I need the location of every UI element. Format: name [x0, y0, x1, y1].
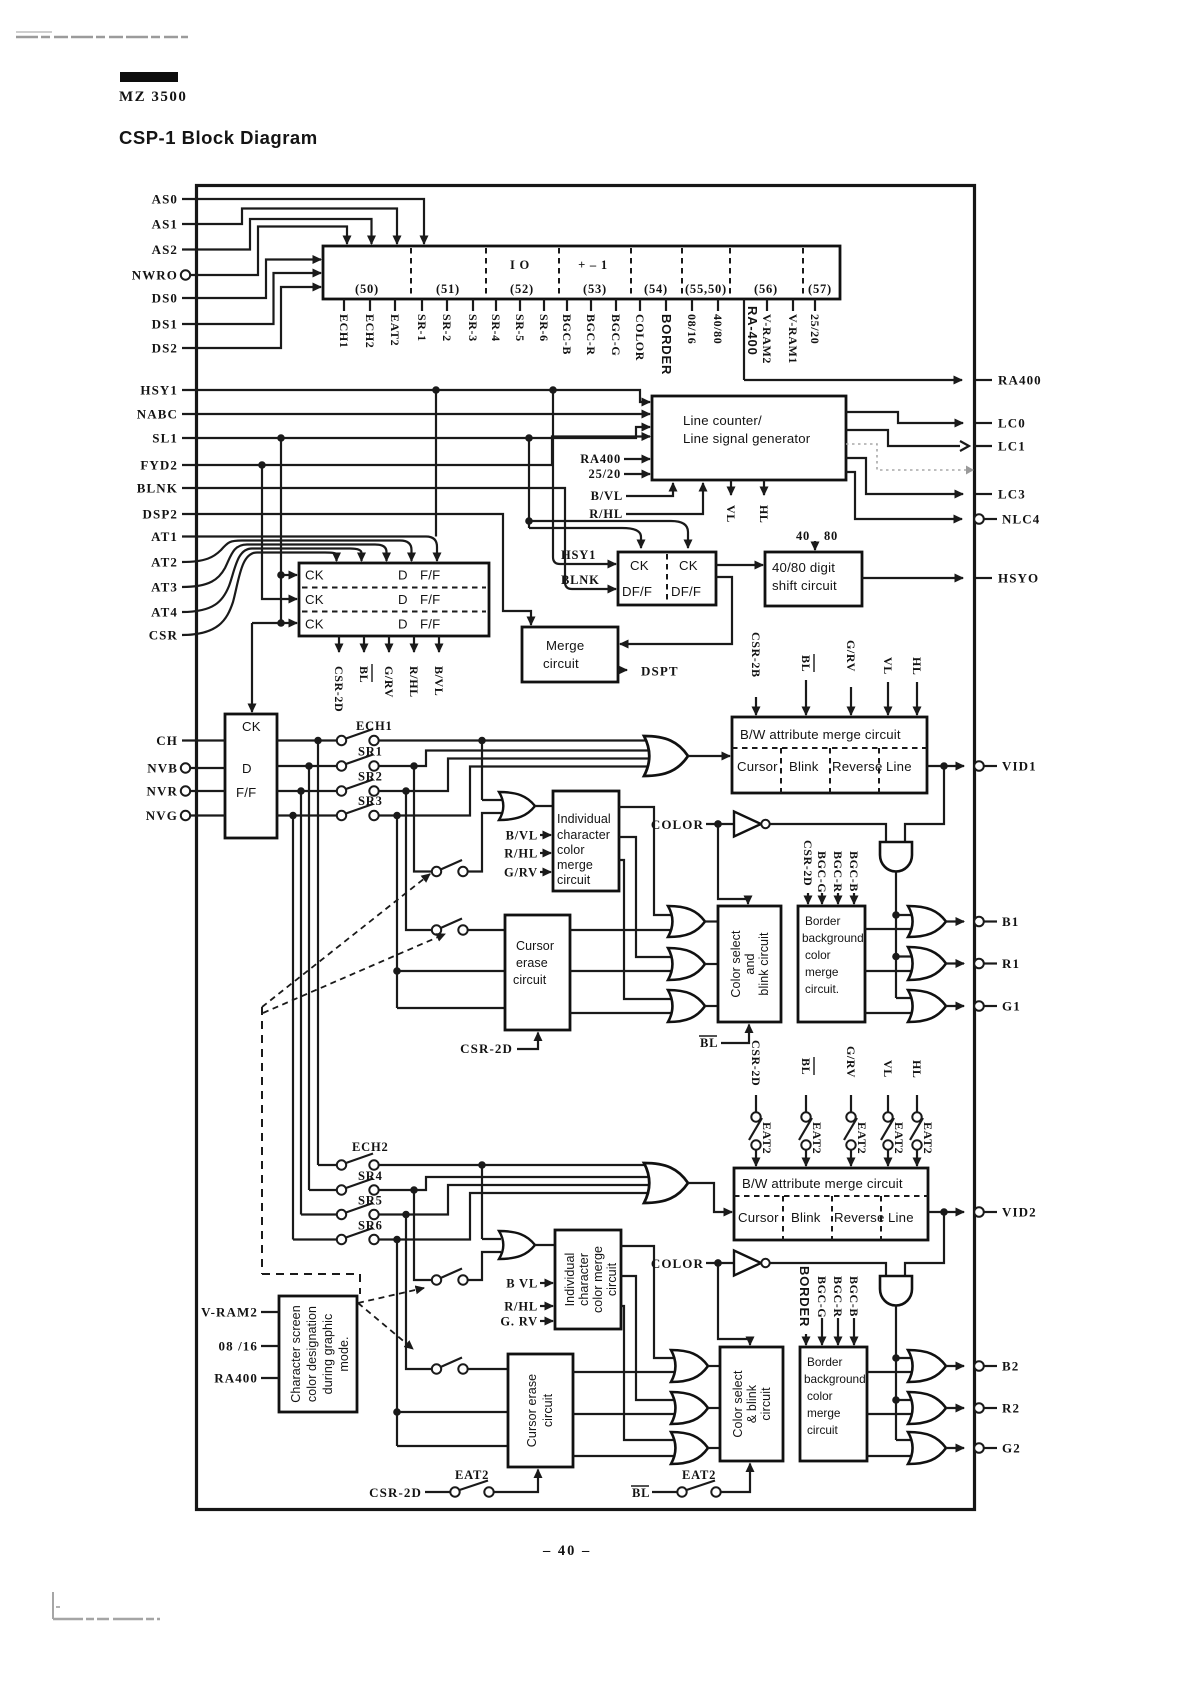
- svg-text:circuit: circuit: [513, 973, 547, 987]
- svg-text:AS1: AS1: [152, 217, 178, 232]
- svg-text:Merge: Merge: [546, 638, 584, 653]
- svg-text:G1: G1: [1002, 999, 1021, 1014]
- svg-text:SR-4: SR-4: [489, 314, 503, 342]
- svg-text:R2: R2: [1002, 1401, 1020, 1416]
- svg-text:BGC-B: BGC-B: [847, 1276, 861, 1317]
- svg-text:B/VL: B/VL: [591, 489, 623, 503]
- svg-text:R/HL: R/HL: [407, 666, 421, 698]
- svg-text:SL1: SL1: [152, 431, 178, 446]
- svg-text:ECH1: ECH1: [337, 314, 351, 348]
- svg-text:character: character: [557, 828, 610, 842]
- svg-text:BGC-G: BGC-G: [609, 314, 623, 356]
- svg-text:BL: BL: [632, 1486, 650, 1500]
- svg-text:COLOR: COLOR: [651, 817, 704, 832]
- svg-text:character: character: [577, 1253, 591, 1306]
- svg-text:B/VL: B/VL: [432, 666, 446, 696]
- svg-text:Cursor: Cursor: [738, 1210, 779, 1225]
- svg-text:CK: CK: [242, 719, 261, 734]
- svg-text:shift circuit: shift circuit: [772, 578, 837, 593]
- svg-text:CK: CK: [630, 558, 649, 573]
- svg-text:Line: Line: [888, 1210, 914, 1225]
- svg-text:HSY1: HSY1: [140, 383, 178, 398]
- svg-text:circuit.: circuit.: [805, 982, 839, 996]
- svg-text:BGC-R: BGC-R: [831, 851, 845, 893]
- svg-text:EAT2: EAT2: [921, 1122, 935, 1154]
- svg-text:circuit: circuit: [605, 1262, 619, 1296]
- svg-text:25/20: 25/20: [589, 467, 621, 481]
- svg-text:08 /16: 08 /16: [219, 1339, 258, 1354]
- svg-text:LC3: LC3: [998, 487, 1026, 502]
- svg-text:AS2: AS2: [152, 242, 178, 257]
- svg-text:40/80 digit: 40/80 digit: [772, 560, 835, 575]
- svg-text:Individual: Individual: [557, 812, 611, 826]
- svg-text:ECH1: ECH1: [356, 719, 393, 733]
- svg-text:SR-3: SR-3: [466, 314, 480, 342]
- svg-text:SR1: SR1: [358, 745, 383, 759]
- svg-text:COLOR: COLOR: [633, 314, 647, 361]
- svg-text:Line: Line: [886, 759, 912, 774]
- svg-text:D: D: [398, 592, 408, 607]
- svg-text:SR5: SR5: [358, 1194, 383, 1208]
- svg-text:merge: merge: [805, 965, 839, 979]
- svg-text:Reverse: Reverse: [832, 759, 883, 774]
- svg-text:SR2: SR2: [358, 770, 383, 784]
- svg-text:CK: CK: [679, 558, 698, 573]
- svg-text:G/RV: G/RV: [844, 1046, 858, 1078]
- svg-text:RA400: RA400: [214, 1371, 258, 1386]
- svg-text:NWRO: NWRO: [132, 268, 178, 283]
- svg-text:F/F: F/F: [236, 785, 256, 800]
- svg-text:Border: Border: [807, 1355, 842, 1369]
- svg-text:BLNK: BLNK: [137, 481, 178, 496]
- svg-text:CK: CK: [305, 592, 324, 607]
- svg-text:circuit: circuit: [543, 656, 579, 671]
- svg-text:FYD2: FYD2: [140, 458, 178, 473]
- svg-text:B2: B2: [1002, 1359, 1019, 1374]
- svg-text:VL: VL: [881, 1060, 895, 1078]
- svg-text:ECH2: ECH2: [363, 314, 377, 348]
- svg-text:AT3: AT3: [151, 580, 178, 595]
- svg-text:BL: BL: [799, 655, 813, 672]
- svg-text:40: 40: [796, 529, 810, 543]
- svg-text:color merge: color merge: [591, 1246, 605, 1313]
- svg-text:G2: G2: [1002, 1441, 1021, 1456]
- svg-text:HSYO: HSYO: [998, 571, 1039, 586]
- svg-text:during graphic: during graphic: [321, 1314, 335, 1395]
- svg-text:color: color: [805, 948, 831, 962]
- svg-text:(52): (52): [510, 282, 534, 296]
- svg-text:B VL: B VL: [506, 1277, 538, 1291]
- svg-text:CH: CH: [156, 733, 178, 748]
- svg-text:(51): (51): [436, 282, 460, 296]
- svg-text:circuit: circuit: [541, 1393, 555, 1427]
- svg-text:merge: merge: [557, 858, 593, 872]
- svg-text:R/HL: R/HL: [504, 847, 538, 861]
- svg-text:color: color: [807, 1389, 833, 1403]
- svg-text:F/F: F/F: [420, 568, 440, 583]
- svg-text:G/RV: G/RV: [382, 666, 396, 698]
- svg-text:Line signal generator: Line signal generator: [683, 431, 811, 446]
- svg-text:blink circuit: blink circuit: [757, 932, 771, 996]
- svg-text:SR3: SR3: [358, 794, 383, 808]
- svg-text:SR4: SR4: [358, 1169, 383, 1183]
- svg-text:BGC-R: BGC-R: [831, 1276, 845, 1318]
- svg-text:color designation: color designation: [305, 1306, 319, 1402]
- svg-text:and: and: [743, 953, 757, 974]
- svg-text:SR-6: SR-6: [537, 314, 551, 342]
- svg-text:EAT2: EAT2: [388, 314, 402, 346]
- svg-text:Cursor: Cursor: [737, 759, 778, 774]
- svg-text:circuit: circuit: [759, 1387, 773, 1421]
- svg-text:Color select: Color select: [731, 1370, 745, 1438]
- svg-text:HL: HL: [757, 505, 771, 524]
- svg-text:40/80: 40/80: [711, 314, 725, 344]
- svg-text:COLOR: COLOR: [651, 1256, 704, 1271]
- svg-text:mode.: mode.: [337, 1336, 351, 1371]
- svg-text:R/HL: R/HL: [589, 507, 623, 521]
- svg-text:D: D: [398, 617, 408, 632]
- svg-text:I O: I O: [510, 258, 530, 272]
- svg-text:EAT2: EAT2: [855, 1122, 869, 1154]
- svg-text:+ – 1: + – 1: [578, 258, 608, 272]
- svg-text:Reverse: Reverse: [834, 1210, 885, 1225]
- svg-text:NVB: NVB: [147, 761, 178, 776]
- svg-text:V-RAM2: V-RAM2: [760, 314, 774, 364]
- svg-text:(57): (57): [808, 282, 832, 296]
- svg-text:SR-5: SR-5: [513, 314, 527, 342]
- svg-text:NVG: NVG: [146, 808, 178, 823]
- svg-text:B/VL: B/VL: [506, 829, 538, 843]
- svg-text:NVR: NVR: [147, 784, 178, 799]
- svg-text:F/F: F/F: [420, 592, 440, 607]
- svg-text:EAT2: EAT2: [892, 1122, 906, 1154]
- svg-text:– 40 –: – 40 –: [542, 1543, 591, 1559]
- svg-text:color: color: [557, 843, 585, 857]
- svg-text:CSR-2B: CSR-2B: [749, 632, 763, 678]
- svg-text:EAT2: EAT2: [760, 1122, 774, 1154]
- svg-text:DS2: DS2: [152, 341, 178, 356]
- svg-text:B/W attribute merge circuit: B/W attribute merge circuit: [740, 727, 901, 742]
- svg-text:NLC4: NLC4: [1002, 512, 1040, 527]
- svg-text:circuit: circuit: [807, 1423, 839, 1437]
- svg-text:BGC-G: BGC-G: [815, 1276, 829, 1318]
- svg-text:(56): (56): [754, 282, 778, 296]
- svg-text:BGC-R: BGC-R: [584, 314, 598, 356]
- svg-text:AS0: AS0: [152, 192, 178, 207]
- svg-text:RA400: RA400: [998, 373, 1042, 388]
- svg-text:VID1: VID1: [1002, 759, 1037, 774]
- svg-text:ECH2: ECH2: [352, 1140, 389, 1154]
- svg-text:LC1: LC1: [998, 439, 1026, 454]
- svg-text:LC0: LC0: [998, 416, 1026, 431]
- svg-text:BGC-B: BGC-B: [847, 851, 861, 892]
- svg-text:EAT2: EAT2: [455, 1468, 489, 1482]
- svg-text:VID2: VID2: [1002, 1205, 1037, 1220]
- svg-text:DSPT: DSPT: [641, 664, 679, 679]
- svg-text:V-RAM2: V-RAM2: [201, 1305, 258, 1320]
- svg-text:F/F: F/F: [420, 617, 440, 632]
- svg-text:circuit: circuit: [557, 873, 591, 887]
- svg-text:BGC-G: BGC-G: [815, 851, 829, 893]
- svg-text:erase: erase: [516, 956, 548, 970]
- svg-text:CSR: CSR: [149, 628, 178, 643]
- svg-text:08/16: 08/16: [685, 314, 699, 344]
- svg-text:CSR-2D: CSR-2D: [369, 1485, 422, 1500]
- svg-text:NABC: NABC: [137, 407, 178, 422]
- svg-text:RA400: RA400: [580, 452, 621, 466]
- svg-text:BORDER: BORDER: [659, 314, 674, 375]
- svg-text:RA-400: RA-400: [745, 306, 760, 356]
- svg-text:MZ 3500: MZ 3500: [119, 89, 187, 105]
- svg-text:CSR-2D: CSR-2D: [332, 666, 346, 712]
- svg-text:AT1: AT1: [151, 529, 178, 544]
- svg-text:SR-2: SR-2: [440, 314, 454, 342]
- svg-text:Color select: Color select: [729, 930, 743, 998]
- svg-text:DSP2: DSP2: [143, 507, 178, 522]
- svg-text:R1: R1: [1002, 956, 1020, 971]
- svg-text:BGC-B: BGC-B: [560, 314, 574, 355]
- svg-text:G/RV: G/RV: [504, 866, 538, 880]
- svg-text:(53): (53): [583, 282, 607, 296]
- svg-text:BORDER: BORDER: [797, 1266, 812, 1327]
- svg-text:CSR-2D: CSR-2D: [801, 840, 815, 886]
- svg-text:Cursor: Cursor: [516, 939, 554, 953]
- svg-text:B/W attribute merge circuit: B/W attribute merge circuit: [742, 1176, 903, 1191]
- svg-text:BLNK: BLNK: [561, 573, 600, 587]
- svg-text:& blink: & blink: [745, 1384, 759, 1423]
- svg-text:80: 80: [824, 529, 838, 543]
- svg-text:G. RV: G. RV: [500, 1315, 538, 1329]
- svg-text:25/20: 25/20: [808, 314, 822, 344]
- svg-text:VL: VL: [881, 657, 895, 675]
- svg-text:DF/F: DF/F: [671, 584, 701, 599]
- svg-text:Line counter/: Line counter/: [683, 413, 762, 428]
- svg-text:BL: BL: [700, 1036, 718, 1050]
- svg-text:CSR-2D: CSR-2D: [749, 1040, 763, 1086]
- svg-text:Cursor erase: Cursor erase: [525, 1374, 539, 1447]
- svg-text:CK: CK: [305, 617, 324, 632]
- svg-text:Blink: Blink: [791, 1210, 821, 1225]
- svg-text:V-RAM1: V-RAM1: [786, 314, 800, 364]
- svg-text:HL: HL: [910, 1060, 924, 1079]
- svg-text:VL: VL: [724, 505, 738, 523]
- svg-text:Character screen: Character screen: [289, 1305, 303, 1402]
- svg-text:EAT2: EAT2: [810, 1122, 824, 1154]
- svg-text:HL: HL: [910, 657, 924, 676]
- svg-text:CK: CK: [305, 568, 324, 583]
- svg-text:DF/F: DF/F: [622, 584, 652, 599]
- svg-text:BL: BL: [799, 1058, 813, 1075]
- svg-text:HSY1: HSY1: [561, 548, 596, 562]
- svg-text:DS0: DS0: [152, 291, 178, 306]
- svg-text:SR-1: SR-1: [415, 314, 429, 342]
- svg-text:SR6: SR6: [358, 1219, 383, 1233]
- svg-text:D: D: [398, 568, 408, 583]
- svg-text:merge: merge: [807, 1406, 841, 1420]
- svg-text:BL: BL: [357, 666, 371, 683]
- svg-text:background: background: [802, 931, 864, 945]
- svg-text:G/RV: G/RV: [844, 640, 858, 672]
- svg-text:AT2: AT2: [151, 555, 178, 570]
- svg-text:CSP-1 Block Diagram: CSP-1 Block Diagram: [119, 127, 318, 148]
- svg-text:Border: Border: [805, 914, 840, 928]
- svg-text:D: D: [242, 761, 252, 776]
- svg-text:(50): (50): [355, 282, 379, 296]
- svg-text:AT4: AT4: [151, 605, 178, 620]
- svg-text:background: background: [804, 1372, 866, 1386]
- svg-text:B1: B1: [1002, 914, 1019, 929]
- svg-text:(54): (54): [644, 282, 668, 296]
- svg-text:EAT2: EAT2: [682, 1468, 716, 1482]
- svg-text:R/HL: R/HL: [504, 1300, 538, 1314]
- svg-text:DS1: DS1: [152, 317, 178, 332]
- svg-text:CSR-2D: CSR-2D: [460, 1041, 513, 1056]
- svg-text:(55,50): (55,50): [685, 282, 727, 296]
- svg-text:Blink: Blink: [789, 759, 819, 774]
- svg-text:Individual: Individual: [563, 1253, 577, 1307]
